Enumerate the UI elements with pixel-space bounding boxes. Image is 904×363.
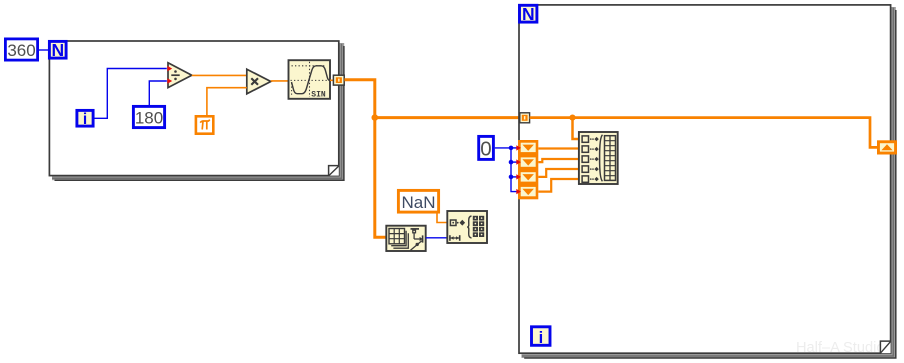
wire SR4 to build array in5 [538, 179, 578, 192]
constant 360 [5, 39, 37, 60]
array size node [386, 226, 425, 251]
for loop 1 (left) [49, 41, 344, 180]
wire array size to initialize array [426, 237, 447, 239]
loop 1 main border [49, 41, 338, 176]
constant 0 [479, 136, 494, 160]
wire pi to multiply bottom input [207, 88, 247, 115]
svg-text:i: i [539, 329, 544, 347]
svg-text:Half–A Studio: Half–A Studio [796, 340, 884, 356]
loop 1 output tunnel [333, 75, 344, 85]
svg-text:NaN: NaN [401, 193, 435, 212]
gray band right [891, 7, 896, 356]
svg-text:360: 360 [7, 41, 35, 60]
branch to build array input 1 [573, 118, 579, 139]
main array wire tunnel to right loop [344, 80, 520, 118]
wire junction dots [509, 146, 514, 151]
coercion dot divide top [167, 66, 172, 72]
build array node [579, 132, 618, 184]
loop 2 input tunnel [520, 113, 530, 123]
shadow frame 3 [55, 46, 344, 180]
iteration terminal i (loop 1) [77, 110, 93, 128]
svg-text:180: 180 [135, 108, 163, 127]
gray band right [339, 43, 344, 177]
wire SR3 to build array in4 [538, 169, 578, 177]
wire 180 to divide bottom input [149, 81, 167, 105]
gray band bottom [52, 176, 345, 181]
shadow frame 3 [524, 10, 896, 358]
wire 360 to N [39, 49, 48, 51]
svg-text:N: N [522, 4, 535, 24]
initialize array node [447, 211, 487, 243]
svg-text:i: i [83, 111, 87, 128]
loop 1 resize dog-ear [329, 166, 339, 176]
coercion dot divide bottom [167, 78, 172, 84]
loop 2 main border [519, 5, 891, 353]
wire multiply to sine [271, 80, 289, 82]
svg-text:N: N [51, 40, 64, 60]
branch down to array size [375, 118, 387, 238]
coercion dots shift registers [516, 145, 521, 150]
divide function [168, 63, 192, 88]
NaN constant [398, 190, 438, 212]
shadow frame 2 [522, 8, 894, 356]
iteration terminal i (loop 2) [532, 327, 551, 347]
wire junction inside loop 2 [569, 115, 575, 121]
wire junction [372, 114, 379, 121]
wire NaN to initialize array [437, 214, 447, 223]
wire SR2 to build array in3 [538, 159, 578, 162]
multiply function [247, 69, 271, 94]
left shift registers (4) [518, 140, 538, 199]
count terminal N (loop 1) [49, 40, 66, 60]
wire inside loop 2 to right shift register [530, 118, 877, 148]
wire i to divide top input [95, 69, 167, 119]
pi constant [196, 116, 213, 133]
count terminal N (loop 2) [520, 4, 537, 24]
wire divide to multiply [192, 74, 247, 76]
gray band bottom [522, 353, 896, 358]
wire SR1 to build array in2 [538, 147, 578, 149]
svg-text:0: 0 [480, 138, 491, 161]
wire sine to tunnel [330, 79, 334, 81]
svg-text:SIN: SIN [311, 90, 326, 99]
constant 180 [133, 106, 164, 127]
shadow frame 2 [52, 44, 341, 179]
loop 2 resize dog-ear [880, 341, 890, 353]
sine function [289, 60, 331, 99]
wire 0 to shift registers [495, 148, 517, 192]
right shift register [877, 140, 897, 154]
for loop 2 (right) [519, 5, 896, 358]
